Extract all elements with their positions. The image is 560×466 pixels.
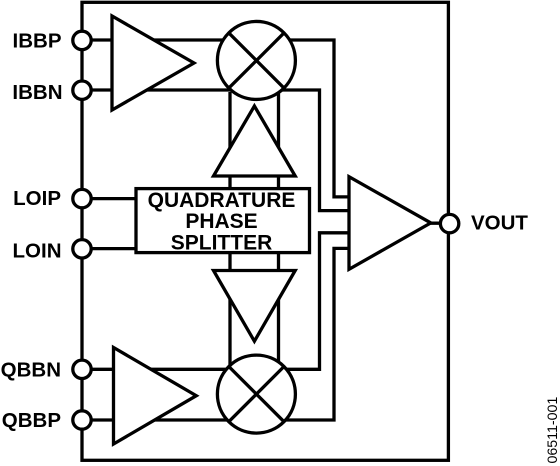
wire LO bus bottom right [277,251,280,366]
svg-text:SPLITTER: SPLITTER [171,231,273,254]
wire LO bus top left [228,92,231,190]
quadrature phase splitter box [136,189,310,255]
pin IBBP [73,31,91,49]
wire LO bus bottom left [228,251,231,366]
svg-text:QBBP: QBBP [2,409,61,432]
wire QBBP: pin to bottom mixer to summing amp input 4 [82,248,349,420]
amplifier A2 (Q baseband amp) [114,348,197,445]
mixer M2 (Q channel) [217,355,295,433]
amplifier A1 (I baseband amp) [112,16,194,110]
pin QBBP [73,411,91,429]
wire summing amp output to VOUT [430,222,449,225]
svg-text:IBBP: IBBP [13,29,62,52]
pin IBBN [73,81,91,99]
mixer M1 (I channel) [217,21,295,99]
svg-text:LOIP: LOIP [13,187,61,210]
svg-text:PHASE: PHASE [185,210,257,233]
pin LOIP [73,189,91,207]
chip outline [82,2,448,460]
pin LOIN [73,240,91,258]
amplifier A4 (LO Q amp, pointing down) [214,271,296,342]
svg-text:06511-001: 06511-001 [545,397,560,464]
wire IBBN: pin to top mixer to summing amp input 2 [82,90,349,211]
wire LO bus top right [277,92,280,190]
svg-text:IBBN: IBBN [12,81,62,104]
svg-text:QUADRATURE: QUADRATURE [148,189,296,212]
wire LOIP to phase splitter [82,197,140,200]
amplifier A3 (LO I amp, pointing up) [214,106,296,176]
svg-text:QBBN: QBBN [1,358,61,381]
wire IBBP: pin to top mixer to summing amp input 1 [82,40,349,197]
wire LOIN to phase splitter [82,247,140,250]
op-amp U1 (summing output amplifier) [349,177,431,270]
wire QBBN: pin to bottom mixer to summing amp input 3 [82,233,349,369]
pin QBBN [73,360,91,378]
pin VOUT [440,214,458,232]
svg-text:LOIN: LOIN [13,239,62,262]
svg-text:VOUT: VOUT [471,212,528,235]
